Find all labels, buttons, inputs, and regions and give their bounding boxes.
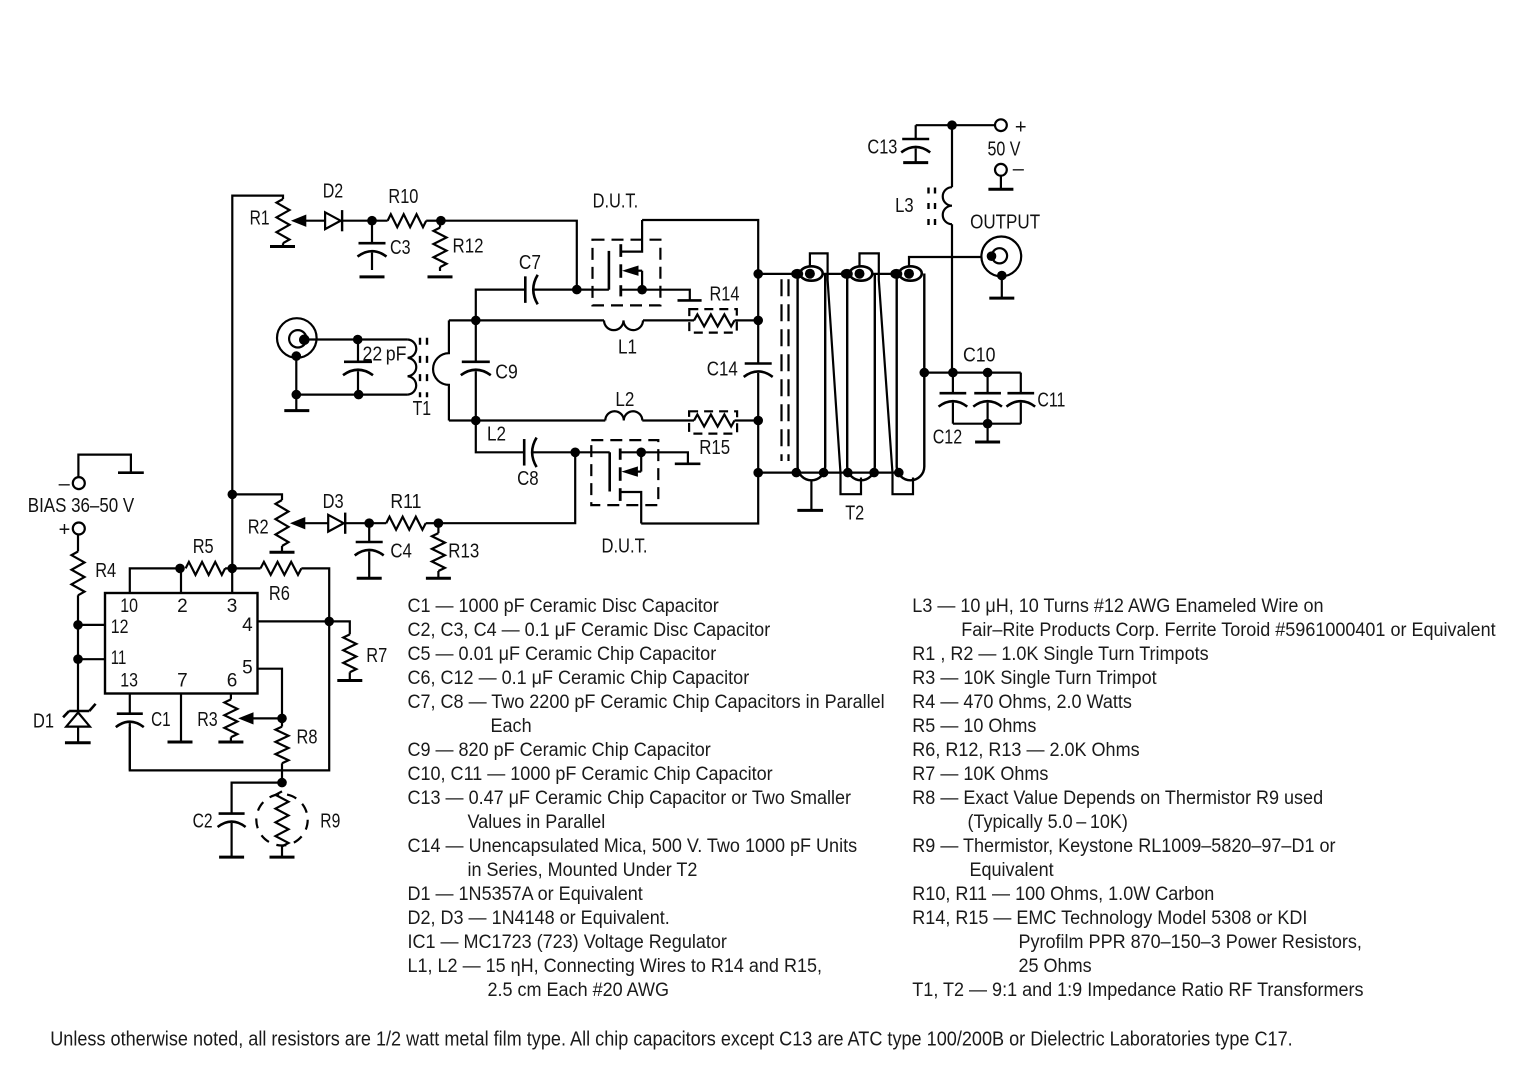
wire 50V minus ground lead <box>1000 176 1002 190</box>
node T2 bottom tube3 left <box>894 468 904 478</box>
node 50V feed <box>947 120 957 130</box>
svg-text:L2: L2 <box>487 424 506 446</box>
wire tube3 wall to bypass <box>924 372 953 374</box>
node bypass rail left <box>920 368 930 378</box>
svg-text:2: 2 <box>177 596 188 617</box>
svg-text:Unless otherwise noted, all re: Unless otherwise noted, all resistors ar… <box>50 1029 1293 1051</box>
svg-text:C3: C3 <box>390 237 411 259</box>
ground under C2 <box>219 856 244 859</box>
transistor Q2 body arrow <box>621 466 638 476</box>
node left rail R2 branch <box>228 490 238 500</box>
node R14/T2 <box>753 316 763 326</box>
svg-text:7: 7 <box>177 670 188 691</box>
resistor R1 trimpot <box>277 199 290 243</box>
transistor Q2 D.U.T. dashed box <box>591 440 658 505</box>
capacitor C4 <box>368 523 370 542</box>
resistor R12 <box>434 228 447 268</box>
ground under 50V minus <box>988 188 1013 191</box>
svg-text:R9 — Thermistor, Keystone RL10: R9 — Thermistor, Keystone RL1009–5820–97… <box>912 836 1336 857</box>
wire R8 node to C2 <box>232 783 282 814</box>
svg-text:R4 — 470 Ohms, 2.0 Watts: R4 — 470 Ohms, 2.0 Watts <box>912 692 1132 713</box>
svg-text:22 pF: 22 pF <box>363 344 407 366</box>
svg-text:C9 — 820 pF Ceramic Chip Capac: C9 — 820 pF Ceramic Chip Capacitor <box>408 740 712 761</box>
svg-text:R7: R7 <box>366 645 387 667</box>
svg-text:+: + <box>1015 117 1027 139</box>
node bypass ground <box>983 419 993 429</box>
wire T2 left line lower <box>757 421 759 473</box>
ground under C3 <box>360 275 385 278</box>
wire R2 wiper to D3 <box>304 522 328 524</box>
svg-text:5: 5 <box>242 657 253 678</box>
svg-text:6: 6 <box>227 670 238 691</box>
output connector center <box>992 248 1007 263</box>
output connector pin dot <box>987 251 997 261</box>
wire pin6 lead <box>230 694 232 700</box>
wire Q2 source to R15 tab <box>641 452 688 464</box>
wire T2 bottom rail <box>758 472 899 474</box>
ground under bypass bank <box>975 441 1000 444</box>
diode D2 <box>325 212 341 229</box>
svg-text:(Typically 5.0 – 10K): (Typically 5.0 – 10K) <box>968 812 1128 833</box>
transformer T1 core <box>419 338 421 398</box>
node T2 bottom tube1 right <box>819 468 829 478</box>
ground under R13 <box>426 577 451 580</box>
input connector body <box>277 318 317 358</box>
svg-text:T2: T2 <box>845 503 864 525</box>
svg-text:C13 — 0.47 μF Ceramic Chip Cap: C13 — 0.47 μF Ceramic Chip Capacitor or … <box>408 788 852 809</box>
svg-text:11: 11 <box>111 648 127 669</box>
transformer T1 primary winding <box>408 340 417 395</box>
resistor R2 trimpot <box>276 500 289 546</box>
svg-text:C7, C8 — Two 2200 pF Ceramic C: C7, C8 — Two 2200 pF Ceramic Chip Capaci… <box>408 692 885 713</box>
node bypass C11 top <box>983 368 993 378</box>
wire R7 ground lead <box>349 672 351 680</box>
node R5/R6/rail junction <box>227 564 237 574</box>
svg-text:R2: R2 <box>248 517 269 539</box>
wire input shell down <box>295 356 297 395</box>
resistor R5 <box>186 562 226 575</box>
capacitor C10 of bank <box>986 373 988 394</box>
resistor R10 <box>388 214 427 227</box>
ground under T2 <box>797 509 823 512</box>
svg-text:D2: D2 <box>323 181 344 203</box>
node pin12 junction <box>73 620 83 630</box>
resistor R7 <box>343 634 356 672</box>
svg-text:D1: D1 <box>33 711 54 733</box>
wire T2 ground lead <box>810 480 812 510</box>
svg-text:C14 — Unencapsulated Mica, 500: C14 — Unencapsulated Mica, 500 V. Two 10… <box>408 836 858 857</box>
wire input shell ground lead <box>295 395 297 411</box>
svg-text:R10: R10 <box>388 186 418 208</box>
wire pin3 lead <box>231 568 233 593</box>
svg-text:C4: C4 <box>390 541 412 563</box>
svg-text:R6: R6 <box>269 583 290 605</box>
svg-text:IC1 — MC1723 (723) Voltage Reg: IC1 — MC1723 (723) Voltage Regulator <box>408 932 728 953</box>
inductor L3 <box>943 187 952 224</box>
capacitor C12 of bank <box>952 373 954 394</box>
ground under R3 <box>218 741 243 744</box>
node pin11 junction <box>73 654 83 664</box>
node Q2 source <box>636 448 646 458</box>
wire R14 to T2 line <box>735 319 759 321</box>
input connector shell dot <box>292 351 302 361</box>
node R11/R13 junction <box>434 518 444 528</box>
svg-text:L3 — 10 μH, 10 Turns #12 AWG E: L3 — 10 μH, 10 Turns #12 AWG Enameled Wi… <box>912 596 1323 617</box>
transistor Q1 gate bar <box>608 251 611 290</box>
wire pin4 to R7 <box>329 621 350 634</box>
node C8 branch / L2 rail <box>471 416 481 426</box>
svg-text:C1: C1 <box>151 709 171 731</box>
transistor Q2 channel <box>619 449 622 460</box>
transformer T1 secondary winding <box>433 320 449 420</box>
svg-text:C8: C8 <box>517 468 539 490</box>
svg-text:D3: D3 <box>323 491 344 513</box>
wire input pin to 22pF <box>304 338 358 340</box>
inductor L2 <box>605 411 642 420</box>
svg-text:C10: C10 <box>963 345 996 367</box>
wire L2 node down to C8 <box>476 421 524 453</box>
svg-text:C10, C11 — 1000 pF Ceramic Chi: C10, C11 — 1000 pF Ceramic Chip Capacito… <box>408 764 774 785</box>
node bypass C10 top <box>948 368 958 378</box>
wire L1 to R14 <box>643 319 694 321</box>
wire Q1 drain to T2 <box>642 220 758 274</box>
capacitor C14 <box>745 362 772 365</box>
transformer T2 core <box>780 279 782 461</box>
output connector body <box>981 237 1021 277</box>
resistor R14 <box>694 314 735 326</box>
wire T2 top rail <box>758 273 898 275</box>
wire C8 to gate node <box>533 451 575 453</box>
capacitor C2 <box>219 812 245 815</box>
svg-text:D2, D3 — 1N4148 or Equivalent.: D2, D3 — 1N4148 or Equivalent. <box>408 908 670 929</box>
R15 mounting tab <box>675 462 701 465</box>
wire pin2 lead <box>180 568 182 593</box>
wire R1 wiper to D2 <box>305 220 325 222</box>
diode D3 <box>328 515 344 532</box>
node C4/R11 junction <box>364 518 374 528</box>
wire T2 left line upper <box>757 274 759 363</box>
capacitor C1 <box>117 712 143 715</box>
capacitor 22pF <box>357 340 359 362</box>
resistor R13 <box>432 533 445 571</box>
svg-text:C12: C12 <box>933 427 963 449</box>
wire bypass bottom rail <box>953 423 1021 425</box>
wire T2 tube 3 to output <box>909 257 991 267</box>
node pin4 junction <box>324 617 334 627</box>
node T2 bottom tube2 left <box>843 468 853 478</box>
svg-text:12: 12 <box>111 617 129 638</box>
wire pin7 lead <box>180 694 182 743</box>
svg-text:3: 3 <box>227 596 238 617</box>
input connector pin dot <box>299 335 310 346</box>
capacitor C3 <box>371 221 373 244</box>
svg-text:R5 — 10 Ohms: R5 — 10 Ohms <box>912 716 1036 737</box>
wire pin13 lead <box>129 694 131 714</box>
wire D3 to C4 node <box>346 522 386 524</box>
svg-text:R4: R4 <box>95 560 116 582</box>
wire T1 secondary bottom rail <box>449 419 476 421</box>
ground under R9 <box>270 856 295 859</box>
node input shell/ground <box>292 390 302 400</box>
svg-text:BIAS 36–50 V: BIAS 36–50 V <box>28 495 135 517</box>
wire R13 node to gate riser <box>438 452 575 523</box>
terminal 50V minus <box>995 164 1007 176</box>
terminal bias plus <box>73 523 85 535</box>
wire pin5 lead <box>258 669 283 719</box>
wire R3 wiper to R8 node <box>252 717 282 719</box>
node R5 left <box>175 564 185 574</box>
transistor Q1 source lead <box>621 289 642 291</box>
resistor R6 <box>261 562 302 575</box>
wire gate Q2 <box>575 451 610 453</box>
svg-text:R15: R15 <box>699 437 730 459</box>
wire R12 node to gate riser <box>441 221 577 290</box>
svg-text:C6, C12 — 0.1 μF Ceramic Chip: C6, C12 — 0.1 μF Ceramic Chip Capacitor <box>408 668 750 689</box>
svg-text:C14: C14 <box>707 359 738 381</box>
T2 winding tube 1 <box>798 274 826 481</box>
resistor R11 <box>386 517 426 530</box>
capacitor C13 <box>915 125 917 139</box>
ground under C4 <box>357 577 382 580</box>
wire R11 to R13 node <box>426 522 439 524</box>
node C3/R10 junction <box>367 216 377 226</box>
capacitor C11 of bank <box>1020 373 1022 394</box>
svg-text:R5: R5 <box>193 536 214 558</box>
ground under R7 <box>337 679 362 682</box>
svg-text:4: 4 <box>242 615 253 636</box>
bias chassis tab <box>118 471 144 474</box>
ground bar under C13 <box>903 161 928 164</box>
node 22pF top <box>353 335 363 345</box>
wire input bottom row <box>296 394 407 396</box>
node T2 bottom tube2 right <box>869 468 879 478</box>
wire Q1 source to R14 tab <box>642 290 690 301</box>
node T2 bottom left <box>753 468 763 478</box>
svg-text:Each: Each <box>491 716 532 737</box>
inductor L1 <box>604 320 643 330</box>
wire pin12 lead <box>78 624 105 626</box>
op-amp IC1 regulator box <box>105 593 258 694</box>
resistor R15 dashed box <box>689 411 737 433</box>
node gate Q2 <box>570 448 580 458</box>
svg-text:C11: C11 <box>1037 390 1065 412</box>
R14 mounting tab <box>678 299 702 302</box>
node R8 bottom junction <box>277 778 287 788</box>
thermistor R9 dashed circle <box>256 794 307 845</box>
ground under D1 <box>65 741 91 744</box>
svg-text:R3: R3 <box>197 709 218 731</box>
wire T2 loop over tube 1 <box>810 253 861 494</box>
svg-text:C5 — 0.01 μF Ceramic Chip Capa: C5 — 0.01 μF Ceramic Chip Capacitor <box>408 644 717 665</box>
resistor R15 <box>694 415 735 427</box>
thermistor R9 <box>276 791 289 846</box>
transistor Q1 channel <box>619 244 622 257</box>
wire Q2 drain to T2 bottom <box>641 473 758 524</box>
wire pin4 lead <box>258 620 330 622</box>
resistor R4 <box>72 552 85 596</box>
svg-text:L3: L3 <box>895 195 914 217</box>
svg-text:D1 — 1N5357A or Equivalent: D1 — 1N5357A or Equivalent <box>408 884 644 905</box>
transistor Q1 body arrow <box>622 266 639 276</box>
wire C7 to gate node <box>535 289 577 291</box>
svg-text:R6, R12, R13 — 2.0K Ohms: R6, R12, R13 — 2.0K Ohms <box>912 740 1139 761</box>
svg-text:R7 — 10K Ohms: R7 — 10K Ohms <box>912 764 1048 785</box>
svg-text:10: 10 <box>120 596 138 617</box>
svg-text:L2: L2 <box>615 389 634 411</box>
svg-text:in Series, Mounted Under T2: in Series, Mounted Under T2 <box>468 860 698 881</box>
svg-text:Equivalent: Equivalent <box>970 860 1055 881</box>
svg-text:OUTPUT: OUTPUT <box>970 212 1040 234</box>
ground under R1 <box>270 245 295 248</box>
svg-text:C2, C3, C4 — 0.1 μF Ceramic Di: C2, C3, C4 — 0.1 μF Ceramic Disc Capacit… <box>408 620 771 641</box>
svg-text:R9: R9 <box>320 811 340 833</box>
wire left rail top <box>232 196 283 569</box>
svg-text:L1: L1 <box>618 337 637 359</box>
transistor Q1 D.U.T. dashed box <box>593 240 661 306</box>
ground under R2 <box>270 551 295 554</box>
svg-text:D.U.T.: D.U.T. <box>593 191 639 213</box>
ground under pin7 <box>168 741 193 744</box>
wire bias minus tab <box>78 455 130 477</box>
diode D1 zener <box>69 710 89 713</box>
node T2 tube1 feed <box>753 269 763 279</box>
svg-text:C9: C9 <box>495 362 518 384</box>
svg-text:Values in Parallel: Values in Parallel <box>468 812 606 833</box>
svg-text:R13: R13 <box>448 541 479 563</box>
wire R6 to pin4 node <box>301 568 329 621</box>
wire bias plus to R4 <box>77 535 79 552</box>
node R15/T2 <box>753 416 763 426</box>
svg-text:D.U.T.: D.U.T. <box>602 535 648 557</box>
wire pin11 lead <box>78 658 105 660</box>
wire gate Q1 <box>577 289 609 291</box>
inductor L3 core <box>927 188 929 194</box>
svg-text:Pyrofilm PPR 870–150–3 Power R: Pyrofilm PPR 870–150–3 Power Resistors, <box>1019 932 1362 953</box>
wire L3 feed <box>951 125 953 187</box>
input connector center <box>289 330 306 347</box>
resistor R8 <box>276 727 289 764</box>
wire pin4 riser to bottom rail <box>130 621 329 770</box>
svg-text:R8: R8 <box>297 727 318 749</box>
wire R15 to T2 line <box>735 419 759 421</box>
wire T2 loop over tube 2 <box>860 253 914 494</box>
wire 50V top <box>916 124 996 126</box>
resistor R14 dashed box <box>689 309 737 333</box>
transistor Q1 drain lead <box>621 220 642 252</box>
svg-text:C2: C2 <box>193 811 213 833</box>
transistor Q2 source lead <box>620 451 641 453</box>
terminal 50V plus <box>995 119 1007 131</box>
wire pin10 lead <box>130 568 180 593</box>
capacitor C8 <box>523 439 526 466</box>
node R8 top junction <box>277 714 287 724</box>
node gate Q1 <box>572 285 582 295</box>
svg-text:Fair–Rite Products Corp. Ferri: Fair–Rite Products Corp. Ferrite Toroid … <box>961 620 1496 641</box>
wire R4 to D1 <box>77 595 79 710</box>
node 22pF bottom <box>354 390 364 400</box>
svg-text:T1: T1 <box>413 398 432 420</box>
wire L2 rail <box>476 419 606 421</box>
node C9 top / L1 rail <box>471 316 481 326</box>
terminal bias minus <box>73 477 85 489</box>
svg-text:R14: R14 <box>710 284 740 306</box>
svg-text:+: + <box>59 519 71 541</box>
svg-text:R1 , R2 — 1.0K Single Turn Tri: R1 , R2 — 1.0K Single Turn Trimpots <box>912 644 1208 665</box>
wire T1 secondary top rail <box>449 319 476 321</box>
svg-text:13: 13 <box>120 670 138 691</box>
ground under output connector <box>989 297 1014 300</box>
svg-text:R8 — Exact Value Depends on Th: R8 — Exact Value Depends on Thermistor R… <box>912 788 1323 809</box>
svg-text:R1: R1 <box>250 208 270 230</box>
svg-text:R3 — 10K Single Turn Trimpot: R3 — 10K Single Turn Trimpot <box>912 668 1157 689</box>
node R10/R12 junction <box>436 216 446 226</box>
T2 winding tube 2 <box>847 274 875 481</box>
capacitor C7 <box>524 276 527 303</box>
svg-text:C1 — 1000 pF Ceramic Disc Capa: C1 — 1000 pF Ceramic Disc Capacitor <box>408 596 720 617</box>
wire bypass top rail <box>953 372 1021 374</box>
wire bypass ground lead <box>986 424 988 442</box>
wire L3 to bypass rail <box>951 224 953 372</box>
ground under R12 <box>428 275 453 278</box>
wire output shell ground lead <box>1001 276 1003 299</box>
transistor Q2 gate bar <box>608 452 611 491</box>
svg-text:25 Ohms: 25 Ohms <box>1019 956 1092 977</box>
output connector shell dot <box>997 271 1007 281</box>
svg-text:R10, R11 — 100 Ohms, 1.0W Carb: R10, R11 — 100 Ohms, 1.0W Carbon <box>912 884 1214 905</box>
svg-text:R12: R12 <box>453 236 484 258</box>
ground under input connector <box>284 409 309 412</box>
wire 22pF top to T1 <box>358 338 408 340</box>
svg-text:C13: C13 <box>867 137 897 159</box>
T2 winding tube 3 <box>897 274 925 481</box>
svg-text:T1, T2 — 9:1 and 1:9 Impedance: T1, T2 — 9:1 and 1:9 Impedance Ratio RF … <box>912 980 1363 1001</box>
wire C9 node up to C7 <box>476 290 526 321</box>
svg-text:–: – <box>1013 158 1025 180</box>
wire R10 to R12 node <box>426 220 441 222</box>
wire L1 rail <box>476 319 604 321</box>
wire D2 to C3 node <box>343 220 388 222</box>
wire L2 to R15 <box>642 419 694 421</box>
wire R2 top lead <box>232 494 282 500</box>
node Q1 source <box>637 285 647 295</box>
svg-text:R14, R15 — EMC Technology Mode: R14, R15 — EMC Technology Model 5308 or … <box>912 908 1307 929</box>
transistor Q2 drain lead <box>620 492 641 524</box>
resistor R3 trimpot <box>224 699 237 737</box>
svg-text:C7: C7 <box>519 252 541 274</box>
node T2 bottom tube1 left <box>792 468 802 478</box>
capacitor C9 <box>475 320 477 361</box>
svg-text:R11: R11 <box>390 491 421 513</box>
svg-text:–: – <box>59 473 71 495</box>
svg-text:L1, L2 — 15 ηH, Connecting Wir: L1, L2 — 15 ηH, Connecting Wires to R14 … <box>408 956 823 977</box>
svg-text:2.5 cm Each #20 AWG: 2.5 cm Each #20 AWG <box>488 980 670 1001</box>
